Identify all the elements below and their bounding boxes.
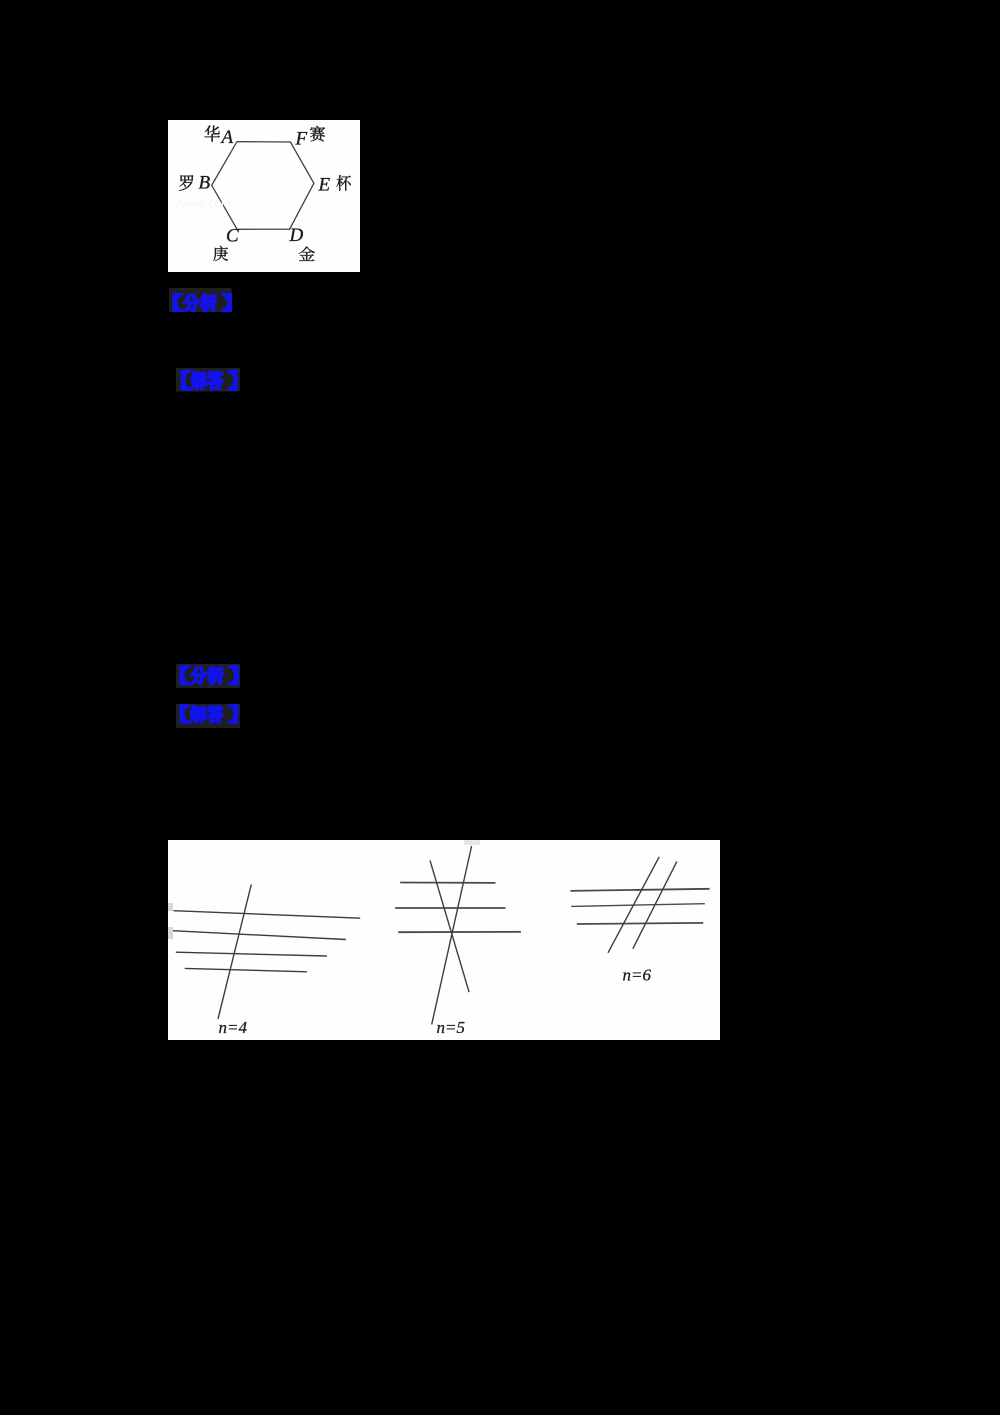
svg-text:n=4: n=4 — [219, 1018, 248, 1037]
svg-text:D: D — [289, 225, 304, 246]
svg-text:C: C — [226, 226, 239, 247]
svg-text:n=5: n=5 — [437, 1018, 465, 1037]
svg-text:B: B — [199, 173, 211, 194]
svg-text:n=6: n=6 — [623, 966, 652, 985]
svg-text:A: A — [220, 127, 234, 148]
svg-text:Jyeoo.com: Jyeoo.com — [175, 195, 231, 210]
svg-text:F: F — [295, 129, 308, 150]
svg-text:E: E — [318, 175, 331, 196]
